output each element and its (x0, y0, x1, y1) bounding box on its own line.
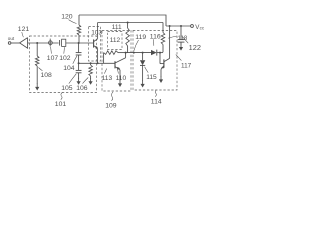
transistor Q113 (115, 53, 126, 81)
label 112 (110, 37, 121, 44)
dashed box 111 (inner block) (108, 32, 123, 50)
ground for D115 (141, 81, 145, 88)
node C junction (78, 62, 80, 64)
dashed box 101 (resonator block) (30, 36, 97, 93)
label 115 (145, 67, 157, 81)
label 109 (105, 92, 117, 110)
svg-text:102: 102 (59, 55, 71, 62)
amplifier 121 (20, 38, 28, 49)
Vcc junction for C122 (180, 25, 182, 27)
ground for Q113 (118, 80, 122, 87)
resistor 108 (35, 44, 39, 85)
wire base bus (79, 62, 115, 64)
dashed box 109 (bias block) (102, 31, 131, 92)
svg-text:109: 109 (105, 103, 117, 110)
node E junction (133, 52, 135, 54)
wire top rail A (79, 15, 166, 26)
svg-text:111: 111 (112, 24, 122, 31)
resistor 120 (77, 15, 81, 43)
ground for 108 (35, 84, 39, 91)
ground for 106 (89, 78, 93, 85)
terminal OUT (8, 36, 15, 44)
label 120 (61, 14, 76, 24)
svg-text:110: 110 (116, 75, 127, 82)
svg-text:113: 113 (102, 75, 113, 82)
svg-text:103: 103 (91, 30, 102, 37)
svg-text:104: 104 (63, 65, 75, 72)
node G junction (159, 52, 161, 54)
svg-text:116: 116 (150, 34, 161, 41)
capacitor 104 (76, 43, 82, 55)
label 116 (150, 34, 161, 46)
svg-text:108: 108 (41, 72, 53, 79)
svg-text:105: 105 (61, 85, 73, 92)
capacitor 105 (76, 55, 82, 79)
resistor 106 (89, 63, 93, 79)
svg-text:107: 107 (47, 55, 59, 62)
emitter junction of Q103 (97, 62, 99, 64)
label 102 (59, 47, 71, 62)
node B junction (78, 42, 80, 44)
svg-text:cc: cc (200, 26, 205, 31)
label 110 (116, 68, 127, 83)
label 104 (63, 56, 77, 72)
wire diode-to-node G (157, 52, 163, 54)
node D junction (125, 52, 127, 54)
label 122 (183, 37, 201, 52)
svg-text:112: 112 (110, 37, 121, 44)
wire out-to-amp (11, 42, 20, 44)
resistor 106 junction (90, 62, 92, 64)
wire amp-to-node (28, 42, 59, 44)
ground for Q117 (159, 76, 163, 83)
label 105 (61, 74, 76, 92)
ground for C122 (179, 44, 183, 51)
diode D116 (151, 50, 157, 56)
transistor Q117 (160, 26, 170, 77)
resistor 118 (161, 23, 165, 53)
Vcc rail (166, 25, 191, 27)
label 107 (47, 47, 59, 62)
transistor Q103 (94, 23, 98, 64)
wire node bus right (126, 52, 151, 54)
resistor 110 (104, 51, 126, 64)
terminal Vcc (191, 24, 205, 31)
capacitor C122 (178, 26, 185, 45)
node 112 junction (127, 22, 129, 24)
label 114 (151, 90, 162, 106)
label 111 (112, 24, 122, 32)
label 119 (134, 34, 147, 51)
crystal 102 (60, 39, 66, 46)
svg-text:119: 119 (135, 34, 146, 41)
label 113 (102, 69, 113, 83)
label 106 (76, 78, 88, 93)
wire crystal-to-node (66, 42, 93, 44)
svg-text:120: 120 (61, 14, 73, 21)
diode D115 (140, 53, 145, 81)
ground for 105 (77, 78, 81, 85)
label 117 (176, 55, 192, 70)
node A junction (36, 42, 38, 44)
svg-text:121: 121 (18, 26, 30, 33)
dashed box 103 (transistor block) (89, 27, 101, 62)
node F junction (142, 52, 144, 54)
capacitor 107 (49, 39, 53, 47)
label 101 (55, 92, 67, 108)
svg-text:114: 114 (151, 99, 162, 106)
Vcc junction for Q117 (169, 25, 171, 27)
resistor 112 (126, 23, 130, 53)
svg-text:out: out (8, 36, 15, 41)
label 121 (18, 26, 30, 37)
svg-text:101: 101 (55, 101, 67, 108)
label 103 (91, 30, 102, 37)
svg-text:106: 106 (76, 85, 88, 92)
label 118 (168, 36, 188, 42)
wire collector bus (98, 22, 163, 24)
dashed box 114 (diode block) (133, 31, 177, 91)
svg-text:115: 115 (146, 74, 157, 81)
svg-text:122: 122 (189, 43, 201, 52)
svg-text:117: 117 (181, 63, 192, 70)
label 108 (39, 68, 53, 80)
